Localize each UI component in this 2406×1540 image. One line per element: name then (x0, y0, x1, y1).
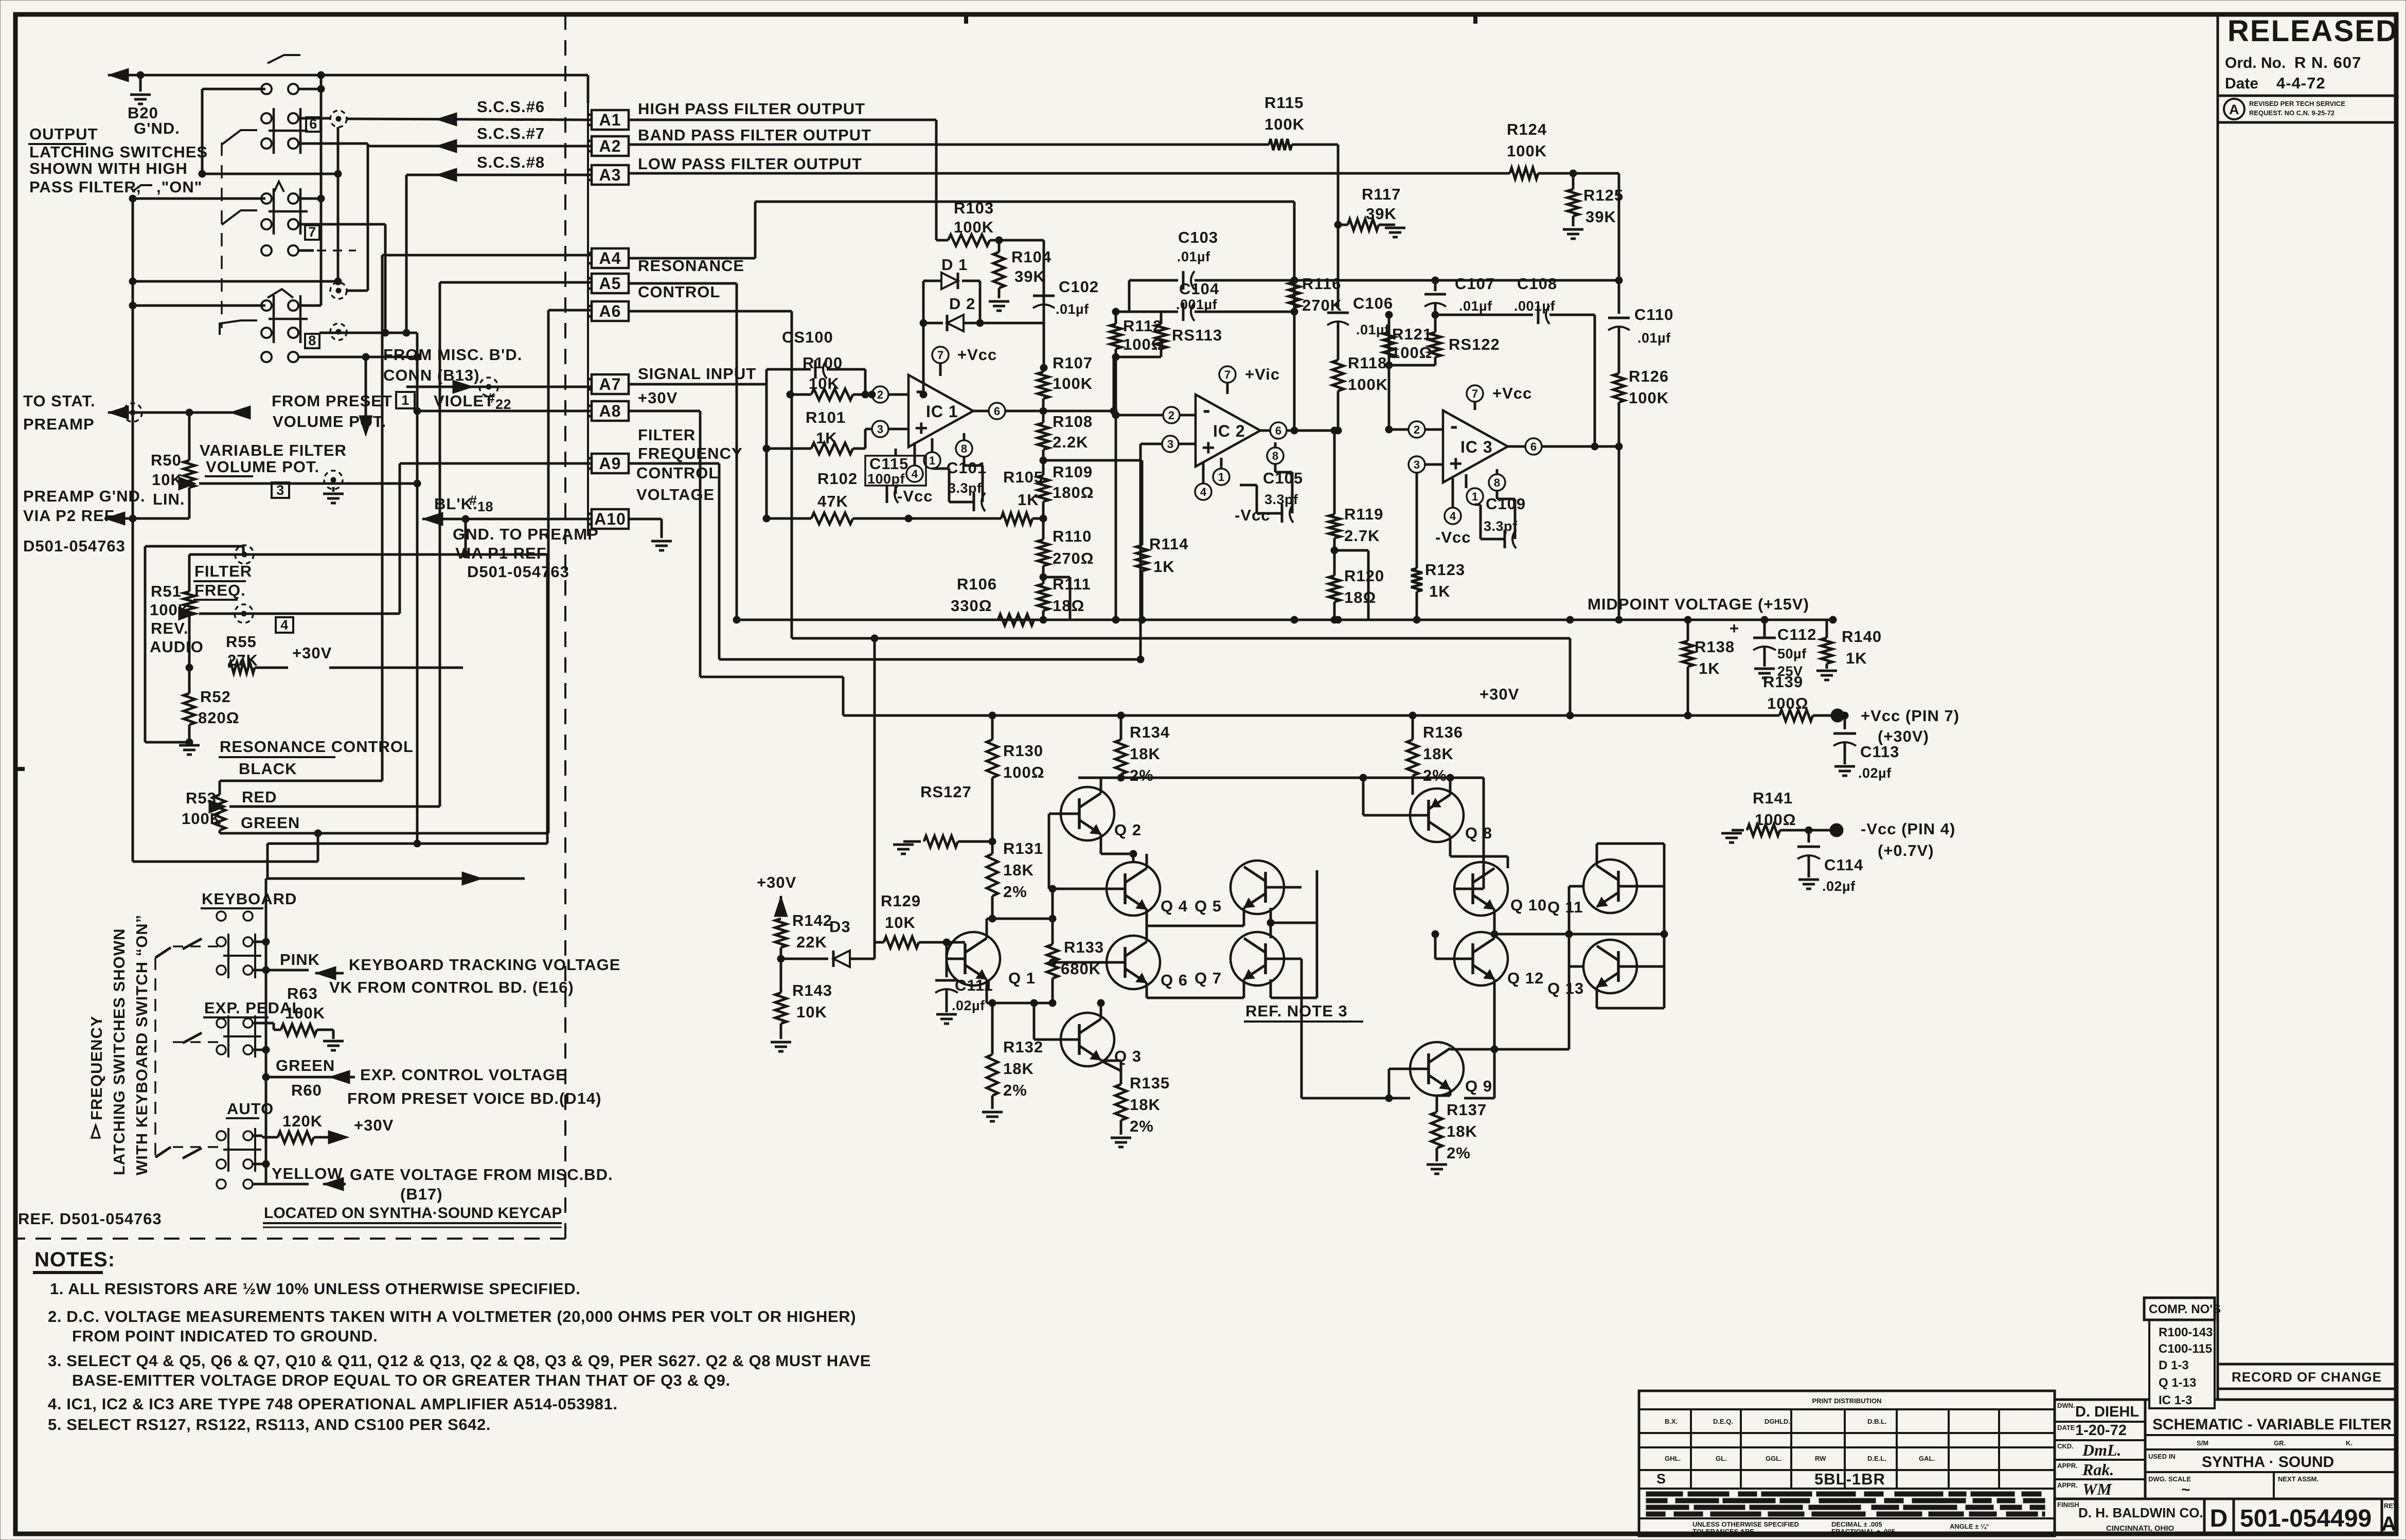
svg-text:8: 8 (1272, 450, 1278, 462)
svg-text:.01µf: .01µf (1177, 249, 1210, 264)
svg-text:REQUEST. NO C.N. 9-25-72: REQUEST. NO C.N. 9-25-72 (2249, 109, 2334, 117)
svg-text:C112: C112 (1777, 625, 1816, 643)
title block signature column (2055, 1400, 2396, 1536)
svg-text:DATE: DATE (2057, 1424, 2075, 1431)
svg-text:FREQ.: FREQ. (194, 581, 246, 599)
svg-text:S: S (1656, 1471, 1666, 1487)
svg-text:DECIMAL ± .005: DECIMAL ± .005 (1831, 1520, 1882, 1528)
capacitor C110 (1608, 173, 1673, 370)
svg-text:39K: 39K (1585, 208, 1616, 226)
svg-text:7: 7 (937, 349, 943, 362)
resistor R110 (1038, 518, 1094, 581)
svg-text:+30V: +30V (757, 873, 796, 891)
keyboard switch contacts (217, 911, 261, 978)
wire IC1 out ladder (1043, 357, 1117, 415)
resistor R140 (1816, 620, 1882, 680)
svg-text:Rak.: Rak. (2082, 1460, 2114, 1479)
wire Q9 base (1302, 1069, 1410, 1102)
svg-text:(+0.7V): (+0.7V) (1878, 841, 1934, 859)
transistor Q8 (1410, 789, 1492, 842)
note 4 (48, 1395, 618, 1413)
wire Q13 bottom (1494, 966, 1583, 1049)
svg-text:A1: A1 (599, 111, 621, 129)
svg-text:LATCHING SWITCHES: LATCHING SWITCHES (29, 143, 208, 161)
resistor R107 (1038, 354, 1093, 411)
svg-text:SIGNAL INPUT: SIGNAL INPUT (638, 365, 756, 383)
IC3 pin 7 (1467, 384, 1532, 410)
svg-text:GREEN: GREEN (276, 1056, 335, 1075)
capacitor C102 (1033, 278, 1099, 368)
svg-text:C106: C106 (1353, 294, 1393, 312)
IC1 pin 2 (853, 386, 908, 403)
svg-text:FROM MISC. B'D.: FROM MISC. B'D. (383, 346, 522, 364)
svg-text:8: 8 (961, 442, 967, 455)
svg-text:3: 3 (877, 423, 883, 436)
svg-text:S/M: S/M (2197, 1439, 2208, 1447)
svg-text:1-20-72: 1-20-72 (2075, 1422, 2127, 1439)
resistor R135 (1101, 1061, 1170, 1147)
note 2 (48, 1308, 856, 1345)
svg-text:FREQUENCY: FREQUENCY (87, 1015, 105, 1120)
svg-text:3: 3 (1414, 458, 1420, 471)
terminal box 4 (276, 617, 293, 633)
svg-text:GL.: GL. (1716, 1455, 1727, 1462)
svg-text:2%: 2% (1003, 883, 1027, 901)
svg-text:100K: 100K (285, 1004, 325, 1022)
svg-text:100K: 100K (1053, 374, 1093, 392)
svg-text:A2: A2 (599, 137, 621, 155)
svg-text:R60: R60 (291, 1081, 322, 1099)
svg-text:UNLESS OTHERWISE SPECIFIED: UNLESS OTHERWISE SPECIFIED (1692, 1520, 1799, 1528)
svg-text:3: 3 (276, 482, 284, 498)
terminal box 3 (272, 482, 289, 498)
svg-text:180Ω: 180Ω (1053, 484, 1094, 502)
bus y1316 +30v (700, 677, 843, 715)
svg-text:TOLERANCES ARE: TOLERANCES ARE (1692, 1528, 1754, 1535)
resistor R60 (253, 1081, 394, 1144)
svg-text:R106: R106 (957, 575, 997, 593)
diode D3 (781, 918, 875, 967)
svg-text:R116: R116 (1302, 275, 1341, 293)
svg-text:3. SELECT Q4 & Q5, Q6 & Q7,: 3. SELECT Q4 & Q5, Q6 & Q7, Q10 & Q11, Q… (48, 1352, 871, 1370)
midpoint voltage bus (737, 619, 1833, 621)
wire keyboard feed (266, 872, 525, 885)
resistor R118 (1332, 354, 1388, 434)
wire keyboard bus down (268, 554, 547, 879)
svg-text:VIOLET: VIOLET (434, 392, 494, 410)
svg-text:C102: C102 (1059, 278, 1099, 296)
IC2 pin 7 (1219, 365, 1280, 394)
svg-text:R126: R126 (1629, 367, 1669, 385)
svg-text:COMP. NO'S: COMP. NO'S (2149, 1302, 2221, 1316)
svg-text:IC 3: IC 3 (1460, 438, 1493, 456)
svg-text:R118: R118 (1348, 354, 1387, 372)
svg-text:2%: 2% (1130, 1117, 1154, 1135)
svg-text:3.3pf: 3.3pf (1484, 518, 1518, 534)
wire Q5 Q7 join (1267, 870, 1317, 998)
svg-text:2%: 2% (1130, 766, 1154, 784)
svg-text:1: 1 (1218, 471, 1224, 484)
svg-text:MIDPOINT VOLTAGE (+15V): MIDPOINT VOLTAGE (+15V) (1588, 595, 1809, 613)
wire S.C.S.#6 to A1 (347, 98, 592, 126)
label control (638, 283, 720, 301)
svg-text:2%: 2% (1423, 766, 1447, 784)
svg-text:39K: 39K (1366, 205, 1397, 223)
svg-text:D501-054763: D501-054763 (23, 537, 126, 555)
svg-text:R141: R141 (1753, 789, 1793, 807)
resistor R136 (1407, 715, 1463, 795)
svg-text:NEXT ASSM.: NEXT ASSM. (2278, 1475, 2319, 1483)
exp green wire (253, 1046, 270, 1053)
wire Q8 emitter (1450, 836, 1508, 868)
IC3 pin 1 (1466, 474, 1483, 505)
capacitor C107 (1424, 275, 1495, 315)
svg-text:D.B.L.: D.B.L. (1867, 1418, 1887, 1425)
label resonance control (219, 738, 414, 757)
resistor RS122 (1389, 311, 1500, 365)
svg-text:-Vcc (PIN 4): -Vcc (PIN 4) (1861, 820, 1955, 838)
capacitor C111 (935, 942, 993, 1024)
svg-text:PINK: PINK (280, 951, 320, 969)
capacitor C113 (1833, 712, 1899, 781)
record of change (2218, 1364, 2396, 1400)
svg-text:VIA P2 REF.: VIA P2 REF. (23, 507, 118, 525)
svg-text:2%: 2% (1447, 1144, 1471, 1162)
svg-text:BLACK: BLACK (239, 760, 297, 778)
svg-text:SYNTHA · SOUND: SYNTHA · SOUND (2202, 1454, 2334, 1471)
svg-text:501-054499: 501-054499 (2240, 1505, 2372, 1532)
capacitor C101 (932, 457, 987, 511)
revision column line (2217, 14, 2219, 1364)
svg-text:Q 1: Q 1 (1008, 969, 1036, 987)
terminal box 7 (305, 224, 319, 240)
svg-text:C100-115: C100-115 (2159, 1342, 2212, 1356)
transistor Q10 (1454, 862, 1547, 916)
resistor R131 (987, 839, 1043, 922)
svg-text:A4: A4 (599, 249, 621, 267)
resistor R120 (1329, 550, 1384, 623)
svg-text:2%: 2% (1003, 1081, 1027, 1099)
svg-text:DWN.: DWN. (2057, 1402, 2075, 1409)
svg-text:S.C.S.#7: S.C.S.#7 (477, 124, 545, 142)
connector pin symbol 6 (330, 111, 347, 127)
label keyboard (201, 890, 297, 908)
transistor Q2 (1061, 787, 1142, 840)
note output latching switches (28, 125, 208, 196)
svg-text:C114: C114 (1824, 856, 1863, 874)
wire Q3 base (1030, 999, 1061, 1040)
svg-text:VIA P1 REF.: VIA P1 REF. (455, 544, 550, 562)
wire resonance black (220, 255, 592, 795)
svg-text:KEYBOARD TRACKING VOLTAGE: KEYBOARD TRACKING VOLTAGE (349, 956, 620, 974)
svg-text:R120: R120 (1344, 567, 1384, 585)
wire Q5 base (1284, 886, 1302, 889)
svg-text:2.2K: 2.2K (1053, 433, 1088, 451)
note 1 (50, 1280, 581, 1298)
pot R53 (182, 789, 440, 833)
svg-text:R134: R134 (1130, 723, 1170, 741)
svg-text:IC 2: IC 2 (1213, 422, 1245, 440)
svg-text:FROM POINT INDICATED TO GR: FROM POINT INDICATED TO GROUND. (72, 1327, 378, 1345)
svg-text:R129: R129 (881, 892, 921, 910)
svg-text:R101: R101 (806, 408, 846, 426)
svg-text:PREAMP: PREAMP (23, 415, 95, 433)
svg-text:1: 1 (401, 392, 409, 408)
svg-text:FREQUENCY: FREQUENCY (638, 444, 743, 462)
wire A8 +30v (629, 411, 700, 677)
latching switch 8 (220, 289, 308, 343)
svg-text:1K: 1K (1153, 558, 1175, 576)
svg-text:Q 1-13: Q 1-13 (2159, 1376, 2196, 1390)
terminal box 1 (396, 392, 415, 408)
svg-text:18K: 18K (1130, 1096, 1161, 1114)
label +30v left (757, 873, 796, 891)
wire Q1 emitter (987, 979, 992, 1003)
wire A2 right of R115 (1292, 145, 1338, 225)
label +30v (638, 389, 678, 407)
capacitor CS100 (767, 328, 869, 398)
svg-text:.02µf: .02µf (1858, 765, 1892, 781)
connector symbol wiper gnd (323, 471, 344, 503)
label from preset (272, 392, 393, 431)
label variable filter volume pot (200, 441, 347, 476)
svg-text:A6: A6 (599, 302, 621, 320)
wire R111 junction right (1043, 577, 1070, 620)
svg-text:R103: R103 (954, 199, 994, 217)
label preamp gnd (23, 487, 146, 555)
wire Q9 emitter (1437, 1089, 1450, 1096)
svg-text:R123: R123 (1425, 561, 1465, 579)
svg-text:GND. TO PREAMP: GND. TO PREAMP (453, 525, 599, 543)
svg-text:Q 7: Q 7 (1195, 969, 1222, 987)
resistor R106 (737, 575, 1034, 625)
svg-text:VK FROM CONTROL BD. (E16): VK FROM CONTROL BD. (E16) (329, 978, 574, 996)
svg-text:6: 6 (1530, 440, 1537, 453)
label low pass filter output (638, 155, 862, 173)
bus y1282 (719, 444, 1144, 663)
svg-text:-Vcc: -Vcc (897, 487, 933, 505)
connector edge line (587, 103, 589, 536)
svg-text:YELLOW: YELLOW (272, 1165, 343, 1183)
svg-text:18K: 18K (1003, 861, 1034, 879)
note 3 (48, 1352, 871, 1389)
svg-text:18: 18 (477, 499, 493, 514)
connector pin symbol 8 (330, 324, 347, 340)
wire R129 top (871, 635, 878, 942)
svg-text:NOTES:: NOTES: (34, 1248, 115, 1271)
svg-text:.02µf: .02µf (1822, 879, 1856, 894)
terminal box 8 (305, 333, 319, 348)
connector symbol stat (123, 403, 142, 422)
svg-text:C103: C103 (1178, 228, 1218, 246)
svg-text:PRINT DISTRIBUTION: PRINT DISTRIBUTION (1812, 1397, 1881, 1405)
label violet 22 (434, 390, 511, 412)
wire A5 (629, 283, 737, 620)
capacitor C105 (1240, 464, 1303, 523)
svg-text:D: D (2210, 1505, 2228, 1532)
svg-text:Q 10: Q 10 (1510, 896, 1547, 914)
wire Q12 emitter (1464, 979, 1498, 1098)
svg-text:100K: 100K (1629, 389, 1669, 407)
svg-text:R131: R131 (1003, 839, 1043, 857)
op-amp IC1 (908, 375, 973, 447)
label gnd to preamp (453, 525, 599, 581)
svg-text:100K: 100K (954, 218, 994, 236)
resistor R141 (1721, 789, 1843, 843)
wire kb tracking (315, 966, 344, 980)
svg-text:1K: 1K (1429, 582, 1451, 600)
svg-text:5. SELECT RS127, RS122, RS: 5. SELECT RS127, RS122, RS113, AND CS100… (48, 1416, 491, 1434)
svg-text:270Ω: 270Ω (1053, 549, 1094, 567)
ladder node C102/R107 (1040, 364, 1047, 371)
label from misc bd (383, 346, 522, 384)
shield dashed (309, 762, 328, 843)
svg-text:R63: R63 (287, 984, 318, 1002)
resistor R119 (1329, 431, 1383, 554)
bus y1241 (792, 638, 1570, 715)
svg-text:6: 6 (994, 405, 1000, 418)
capacitor C112 (1730, 619, 1816, 679)
title block part name (2055, 1402, 2399, 1536)
svg-text:R136: R136 (1423, 723, 1463, 741)
svg-text:R117: R117 (1362, 185, 1401, 203)
resistor RS113 (1116, 312, 1222, 357)
svg-text:-: - (1450, 413, 1458, 438)
resistor R132 (982, 999, 1043, 1121)
IC1 pin 1 (924, 438, 940, 469)
svg-text:R133: R133 (1064, 938, 1104, 956)
svg-text:R115: R115 (1264, 94, 1304, 112)
svg-text:DGHLD.: DGHLD. (1765, 1418, 1790, 1425)
svg-text:A: A (2229, 102, 2239, 117)
wire Q12 collector (1493, 934, 1496, 938)
svg-text:-Vcc: -Vcc (1235, 506, 1270, 524)
connector symbol R51 top (235, 545, 254, 564)
wire IC3 out to midpoint (1615, 446, 1623, 623)
svg-text:R100-143: R100-143 (2159, 1326, 2213, 1339)
IC1 pin 8 (956, 433, 972, 457)
svg-text:1: 1 (929, 454, 935, 467)
connector pin A1 (588, 110, 629, 130)
wire A2 band pass (629, 144, 1269, 146)
terminal box 6 (306, 116, 320, 132)
wire Q7 base (1284, 959, 1410, 1098)
svg-text:5BL-1BR: 5BL-1BR (1814, 1470, 1885, 1488)
wire C107 top rail (1294, 277, 1623, 284)
resistor R63 (253, 984, 344, 1050)
label high pass filter output (638, 100, 865, 118)
svg-text:FROM PRESET: FROM PRESET (272, 392, 393, 410)
label pink (280, 951, 320, 969)
svg-text:GGL.: GGL. (1766, 1455, 1782, 1462)
wire preamp gnd (104, 512, 189, 525)
keyboard wires (253, 879, 309, 1184)
wire S.C.S.#8 to A3 (406, 153, 592, 333)
capacitor C108 (1435, 275, 1598, 450)
wire gate voltage (253, 1177, 346, 1191)
wire A3 low pass (629, 172, 1510, 175)
svg-text:SCHEMATIC - VARIABLE FILTER: SCHEMATIC - VARIABLE FILTER (2152, 1416, 2392, 1433)
svg-text:.02µf: .02µf (952, 998, 985, 1013)
svg-text:GR.: GR. (2274, 1439, 2286, 1447)
notes heading (33, 1248, 115, 1273)
transistor Q7 (1195, 932, 1284, 987)
pot R51 (150, 554, 400, 668)
capacitor C114 (1797, 827, 1863, 894)
svg-text:4: 4 (912, 468, 918, 480)
resistor R114 (1043, 460, 1188, 623)
svg-text:FILTER: FILTER (638, 426, 696, 444)
label located on keycap (263, 1205, 562, 1227)
svg-text:A8: A8 (599, 402, 621, 420)
svg-text:R125: R125 (1583, 186, 1624, 204)
resistor R104 (989, 240, 1051, 311)
resistor R55 (186, 633, 463, 673)
svg-text:K.: K. (2346, 1439, 2352, 1447)
resistor R52 (179, 668, 240, 755)
svg-text:R109: R109 (1053, 463, 1093, 481)
svg-text:2.7K: 2.7K (1344, 527, 1380, 545)
switch interconnect wires (129, 75, 421, 436)
wire to stat preamp (108, 406, 251, 419)
svg-text:1K: 1K (1018, 491, 1039, 509)
label control voltage (636, 464, 719, 504)
title block print distribution table (1639, 1391, 2055, 1536)
label frequency rotated (87, 915, 151, 1175)
svg-text:47K: 47K (817, 492, 848, 510)
svg-text:.01µf: .01µf (1637, 330, 1671, 346)
comp nos box (2144, 1298, 2221, 1408)
resistor R142 (774, 896, 832, 962)
svg-text:18K: 18K (1447, 1122, 1477, 1140)
label filter freq (193, 562, 252, 600)
svg-text:VOLUME POT.: VOLUME POT. (273, 413, 386, 431)
svg-text:R108: R108 (1053, 413, 1093, 431)
svg-text:C110: C110 (1634, 306, 1673, 324)
svg-text:GATE VOLTAGE FROM MISC.BD.: GATE VOLTAGE FROM MISC.BD. (350, 1166, 613, 1184)
svg-text:C109: C109 (1486, 495, 1526, 513)
svg-text:FRACTIONAL ± .005: FRACTIONAL ± .005 (1831, 1528, 1895, 1535)
wire Q10 base (1454, 778, 1484, 889)
svg-text:-Vcc: -Vcc (1435, 528, 1471, 546)
svg-text:R104: R104 (1011, 248, 1051, 266)
connector symbol R51 wiper (235, 604, 253, 623)
resistor R117 (1334, 185, 1405, 237)
svg-text:18K: 18K (1130, 745, 1161, 763)
svg-text:GAL.: GAL. (1919, 1455, 1935, 1462)
svg-text:120K: 120K (282, 1112, 323, 1130)
capacitor C109 (1475, 491, 1526, 548)
svg-text:DmL.: DmL. (2082, 1441, 2122, 1459)
svg-text:OUTPUT: OUTPUT (29, 125, 98, 143)
ground A10 (629, 519, 672, 550)
IC2 pin 6 output (1260, 422, 1338, 439)
svg-text:-: - (916, 378, 923, 403)
svg-text:7: 7 (308, 224, 316, 240)
wire A1 high pass (629, 120, 936, 240)
connector pin A5 (588, 274, 629, 293)
IC1 pin 7 (932, 346, 997, 376)
label green2 (276, 1056, 335, 1075)
svg-text:APPR.: APPR. (2057, 1462, 2078, 1470)
auto contacts (217, 1128, 261, 1172)
svg-text:A10: A10 (594, 510, 626, 528)
svg-text:KEYBOARD: KEYBOARD (202, 890, 297, 908)
svg-text:50µf: 50µf (1777, 646, 1807, 661)
svg-text:C107: C107 (1455, 275, 1495, 293)
wire exp control (262, 1070, 355, 1084)
latching switch 7 (222, 182, 308, 235)
